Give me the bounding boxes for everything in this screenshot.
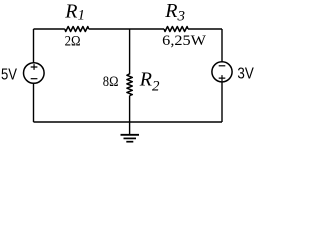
svg-text:2Ω: 2Ω <box>65 34 81 50</box>
svg-text:8Ω: 8Ω <box>103 74 119 90</box>
svg-text:R1: R1 <box>64 0 85 23</box>
svg-text:5V: 5V <box>1 67 18 84</box>
svg-text:R3: R3 <box>164 0 185 24</box>
svg-text:6,25W: 6,25W <box>162 33 207 49</box>
svg-text:R2: R2 <box>139 69 160 95</box>
svg-text:3V: 3V <box>237 65 254 82</box>
